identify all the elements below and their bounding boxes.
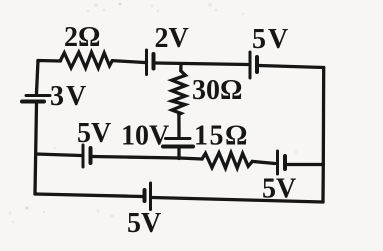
svg-text:10V: 10V	[121, 121, 169, 152]
wire middle before 15 ohm	[179, 158, 202, 159]
battery B4 3V long plate	[26, 94, 50, 97]
svg-text:5V: 5V	[77, 118, 111, 149]
wire bottom right segment	[153, 198, 324, 203]
wire top between 2V and 5V	[156, 63, 248, 65]
battery B7 10V top plate	[166, 137, 191, 140]
resistor R1 2Ω zigzag	[61, 52, 113, 68]
wire middle after 15 ohm	[252, 161, 275, 163]
svg-text:2V: 2V	[155, 23, 189, 54]
wire 30ohm branch top stub	[179, 64, 182, 71]
battery B2 5V short plate	[255, 57, 259, 72]
wire 30ohm to 10V battery	[177, 115, 180, 137]
battery B3 bottom 5V short plate	[143, 190, 147, 201]
resistor R3 30Ω vertical zigzag	[172, 71, 186, 115]
battery B1 2V long plate	[145, 50, 148, 75]
wire right side	[321, 68, 325, 203]
battery B5 mid 5V long plate	[82, 145, 85, 167]
paper speckles top	[87, 3, 244, 16]
wire top-right segment	[259, 66, 324, 68]
battery B3 bottom 5V long plate	[149, 183, 152, 210]
battery B5 mid 5V short plate	[89, 148, 93, 163]
battery B6 mid-right 5V long plate	[276, 151, 279, 174]
battery B2 5V long plate	[249, 52, 252, 78]
svg-text:5V: 5V	[252, 24, 290, 55]
wire top-left segment	[38, 61, 61, 63]
svg-text:2Ω: 2Ω	[64, 22, 100, 53]
battery B1 2V short plate	[152, 54, 156, 69]
resistor R2 15Ω zigzag	[202, 153, 252, 168]
svg-text:5V: 5V	[127, 208, 161, 239]
wire middle center segment	[93, 157, 180, 159]
wire middle right segment	[287, 163, 323, 166]
svg-text:3V: 3V	[50, 81, 88, 112]
wire bottom left segment	[35, 194, 143, 197]
battery B7 10V bottom plate	[163, 145, 193, 149]
wire middle left segment	[36, 154, 81, 156]
battery B4 3V short plate	[22, 100, 44, 104]
wire top middle segment	[112, 61, 144, 63]
wire 10V battery to middle wire	[177, 149, 180, 159]
paper speckles bottom left	[8, 147, 297, 223]
battery B6 mid-right 5V short plate	[283, 156, 287, 169]
svg-text:5V: 5V	[262, 174, 296, 205]
wire left side upper	[37, 61, 39, 94]
svg-text:30Ω: 30Ω	[192, 75, 242, 106]
wire left side lower	[35, 104, 37, 194]
svg-text:15Ω: 15Ω	[194, 121, 249, 152]
